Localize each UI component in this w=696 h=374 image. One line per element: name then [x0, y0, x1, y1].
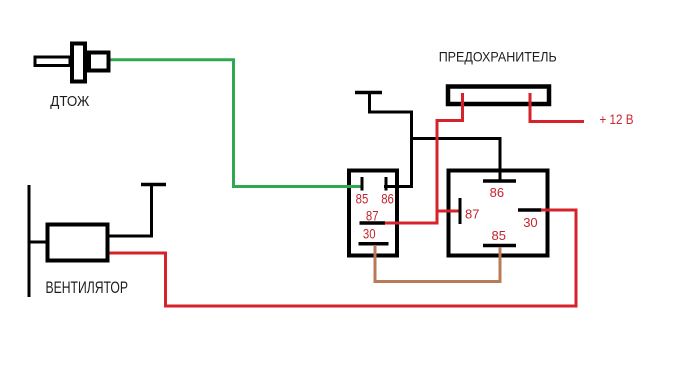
- svg-text:30: 30: [523, 215, 537, 230]
- ground (relay coils): [355, 93, 382, 114]
- relay K1 pin 86: [385, 177, 388, 191]
- relay K2 pin 85: [483, 244, 516, 248]
- relay K2 (right) body: [449, 171, 548, 256]
- wire: junction to relay K2 pin 86 (black): [412, 139, 501, 182]
- svg-text:86: 86: [381, 191, 394, 206]
- relay K1 (left) body: [349, 171, 397, 256]
- wire: sensor to relay K1 pin 85 (green): [108, 60, 363, 187]
- wire: fuse to +12V supply (red): [530, 93, 584, 122]
- svg-text:+ 12 В: + 12 В: [600, 112, 634, 127]
- relay K2 pin 30: [518, 208, 542, 212]
- fan motor ВЕНТИЛЯТОР: [29, 185, 108, 297]
- relay K1 pin 30: [359, 242, 389, 246]
- svg-text:ПРЕДОХРАНИТЕЛЬ: ПРЕДОХРАНИТЕЛЬ: [439, 49, 557, 65]
- svg-text:30: 30: [363, 226, 376, 241]
- fuse body: [448, 87, 549, 105]
- svg-text:87: 87: [465, 206, 479, 221]
- wire: fan motor to ground (black): [109, 186, 152, 236]
- ground (fan return): [141, 183, 166, 187]
- wire: relay K2 pin 30 to fan motor (red): [107, 210, 576, 306]
- relay K1 pin 85: [361, 177, 364, 191]
- svg-text:ДТОЖ: ДТОЖ: [50, 93, 89, 110]
- relay K2 pin 87: [459, 198, 462, 224]
- wire: branch to relay K2 pin 87 (red): [437, 210, 459, 213]
- wire: fuse to relay K1 pin 87 (red): [385, 93, 463, 223]
- coolant temperature sensor ДТОЖ: [35, 44, 109, 82]
- svg-text:85: 85: [356, 191, 369, 206]
- relay K1 pin 87: [360, 221, 386, 225]
- wire: ground to relay K1 pin 86 (black): [370, 112, 412, 187]
- relay K2 pin 86: [483, 179, 516, 183]
- svg-text:85: 85: [492, 228, 506, 243]
- wire: relay K1 pin 30 to relay K2 pin 85 (brown): [375, 245, 500, 282]
- svg-text:ВЕНТИЛЯТОР: ВЕНТИЛЯТОР: [46, 279, 129, 297]
- svg-text:86: 86: [490, 185, 504, 200]
